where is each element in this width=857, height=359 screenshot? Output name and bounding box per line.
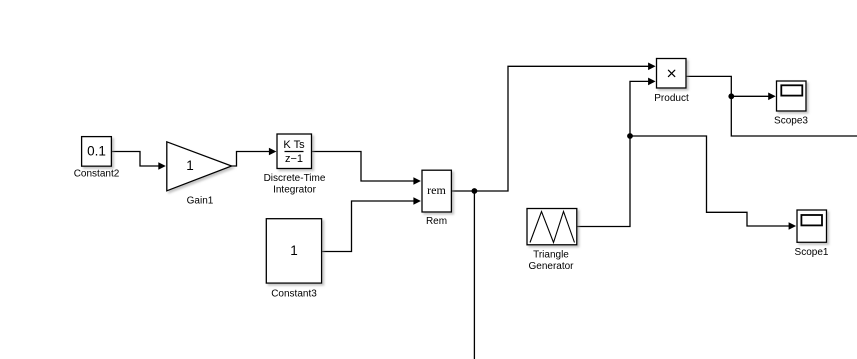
gain block Gain1 [167,142,232,191]
arrowhead into Rem input 1 [413,177,421,185]
wire Rem output to Product input 1 [451,66,648,191]
svg-text:Triangle: Triangle [533,250,569,261]
svg-text:z−1: z−1 [285,153,303,165]
arrowhead into Integrator [269,148,277,156]
svg-text:0.1: 0.1 [87,144,106,159]
svg-text:Discrete-Time: Discrete-Time [264,173,326,184]
constant block Constant2 [82,137,112,167]
constant block Constant3 [266,219,321,283]
svg-text:1: 1 [186,158,194,173]
svg-text:Rem: Rem [426,216,447,227]
svg-text:Product: Product [654,93,689,104]
wire branch from junction to Scope1 [630,136,789,226]
discrete-time integrator block [277,134,312,169]
junction node at product output branch [728,93,734,99]
wire Constant2 to Gain1 [112,152,160,167]
arrowhead into Rem input 2 [413,197,421,205]
svg-text:Scope1: Scope1 [795,247,829,258]
wire branch from rem output down to canvas bottom [473,191,475,359]
svg-text:Constant3: Constant3 [271,289,317,300]
arrowhead into Gain1 [158,162,166,170]
rem block [422,170,451,212]
scope block Scope3 [777,81,807,111]
svg-text:Integrator: Integrator [273,185,316,196]
svg-text:Constant2: Constant2 [74,169,120,180]
triangle generator block [527,209,577,245]
arrowhead into Product input 1 [648,63,656,71]
junction node at rem output branch [472,188,478,194]
wire branch from product output junction to right edge [731,96,857,136]
arrowhead into Product input 2 [648,78,656,86]
wire Triangle Generator to Product input 2 [577,81,649,226]
arrowhead into Scope1 [789,222,797,230]
junction node on triangle generator line [627,133,633,139]
triangle wave icon [530,212,575,243]
scope block Scope1 [797,210,827,242]
svg-text:Generator: Generator [528,261,574,272]
wire Product output to Scope3 [687,76,769,96]
wire Constant3 to Rem input 2 [322,201,415,252]
arrowhead into Scope3 [768,93,776,101]
product block [657,59,687,89]
wire Gain1 to Integrator [232,152,271,167]
svg-text:Scope3: Scope3 [774,116,808,127]
svg-text:K Ts: K Ts [283,139,305,151]
svg-text:rem: rem [427,183,446,197]
svg-text:Gain1: Gain1 [187,196,214,207]
svg-text:1: 1 [290,243,298,258]
wire Integrator to Rem input 1 [312,152,415,182]
